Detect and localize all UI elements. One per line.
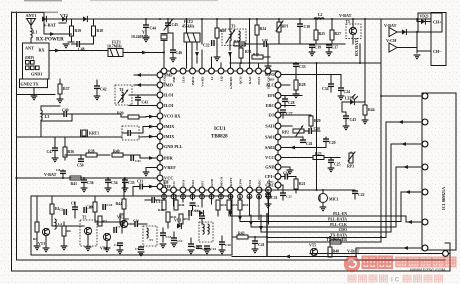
svg-text:T3: T3	[231, 25, 236, 29]
capacitor C50	[77, 155, 84, 168]
IC U1 name	[211, 127, 228, 140]
svg-text:ILOI: ILOI	[164, 93, 174, 98]
resistor R5	[179, 214, 188, 224]
svg-text:R28: R28	[299, 83, 306, 87]
pin EO (right)	[268, 112, 280, 118]
svg-text:CH−: CH−	[433, 49, 442, 54]
capacitor C8 rail	[56, 168, 66, 178]
wire VT2 collector drop	[71, 19, 73, 26]
svg-text:V-BAT: V-BAT	[339, 13, 352, 18]
capacitor C18	[281, 172, 296, 180]
LED LED1	[342, 95, 365, 105]
pin IC1-4	[422, 164, 428, 170]
pin RAO (top)	[247, 68, 253, 84]
pin PDR (left)	[157, 155, 173, 161]
capacitor C29b	[323, 137, 336, 147]
svg-text:I C: I C	[391, 277, 400, 284]
svg-text:R15: R15	[232, 203, 238, 207]
svg-text:RP2: RP2	[282, 131, 289, 135]
svg-text:V CC: V CC	[265, 155, 274, 160]
svg-text:C29: C29	[329, 141, 336, 145]
svg-text:RX DATA: RX DATA	[354, 38, 359, 56]
svg-text:VT5: VT5	[309, 244, 316, 248]
svg-text:R27: R27	[335, 32, 342, 36]
pin VCO RX (left)	[157, 113, 180, 119]
transformer T2 dashed with VT3	[80, 216, 97, 247]
pin DECCO (top)	[265, 68, 271, 89]
resistor R15	[227, 200, 238, 216]
dashed box J1	[122, 126, 139, 140]
svg-text:L4: L4	[58, 222, 62, 226]
transformer T1b dashed	[199, 222, 213, 242]
svg-text:C16: C16	[133, 219, 139, 223]
wire V-CH to CH-	[397, 48, 417, 54]
svg-text:LED1: LED1	[345, 97, 355, 101]
svg-text:TIF: TIF	[163, 181, 170, 185]
bus wire PLL-CLK	[251, 223, 396, 227]
ground under duplexer	[31, 96, 38, 100]
wire mic row	[255, 189, 355, 191]
node rail dots	[145, 18, 418, 258]
svg-text:ILO: ILO	[181, 76, 185, 83]
svg-text:R14: R14	[243, 203, 249, 207]
wires top pins verticals	[192, 19, 259, 68]
scan smudge top 2	[90, 0, 218, 1]
capacitor C24	[338, 75, 351, 100]
svg-text:T5: T5	[346, 20, 351, 24]
svg-text:C31: C31	[271, 196, 278, 200]
pin IC1-3	[422, 141, 428, 147]
border frame inner bottom	[17, 259, 446, 261]
svg-text:EFI: EFI	[268, 93, 275, 98]
capacitor C31	[265, 190, 278, 208]
capacitor C4	[114, 243, 123, 250]
capacitor C20	[219, 236, 232, 254]
bus wire TX-DATA	[267, 233, 386, 237]
capacitor C12	[171, 232, 183, 243]
svg-text:LPW: LPW	[238, 178, 242, 186]
wire L3 top	[41, 106, 60, 110]
resistor R39	[117, 112, 146, 120]
svg-text:SA02: SA02	[265, 145, 275, 150]
transistor VT2	[117, 216, 128, 228]
resistor R6	[62, 222, 71, 246]
wire IC1 row6	[406, 216, 422, 224]
svg-text:PDR: PDR	[164, 156, 174, 161]
wire V-BAT out right	[310, 253, 450, 255]
inductor L4	[55, 219, 62, 229]
transistor VT4	[100, 233, 111, 250]
wire SA02 row	[281, 146, 326, 150]
svg-text:R48: R48	[333, 250, 340, 254]
wire EFI row	[281, 95, 302, 97]
pin SAI1 (right)	[265, 123, 280, 129]
wires pins to bus with arrows	[229, 210, 263, 232]
svg-text:R30: R30	[220, 29, 227, 33]
svg-text:VD1: VD1	[174, 219, 181, 223]
capacitor C33	[293, 63, 306, 75]
capacitor C41c	[252, 237, 265, 253]
resistor R32	[234, 39, 245, 46]
resistor R33	[252, 44, 270, 59]
filter FLT2 455kHz	[182, 19, 200, 42]
svg-text:C7: C7	[116, 225, 120, 229]
wire IMIX1 lead	[139, 125, 157, 133]
capacitor C43b	[343, 112, 357, 130]
connector CH box	[431, 13, 446, 66]
pin LQ (top)	[218, 68, 224, 81]
diode to CH	[397, 29, 417, 34]
svg-text:GND1: GND1	[31, 72, 42, 77]
svg-text:DECO: DECO	[219, 176, 223, 186]
capacitor C13	[189, 209, 198, 217]
wire KRT1 row	[17, 136, 123, 138]
pin GND (bottom)	[209, 178, 215, 199]
transformer T1 dashed	[143, 226, 157, 246]
svg-text:RATT: RATT	[229, 177, 233, 187]
wire VCC row	[281, 157, 313, 159]
capacitor C41b	[300, 137, 313, 146]
pin IMIX (left)	[157, 124, 174, 130]
capacitor C16	[133, 219, 139, 228]
potentiometer RP3	[347, 152, 355, 169]
grounds audio row	[43, 214, 124, 254]
resistor R9	[120, 214, 129, 233]
svg-text:SMI: SMI	[164, 73, 172, 78]
resistor R24	[255, 19, 266, 44]
antenna ANT1 symbol	[27, 19, 36, 29]
capacitor C44	[143, 19, 157, 42]
svg-text:C12: C12	[177, 239, 183, 243]
wire top supply rail	[44, 18, 431, 20]
resistor R42	[166, 212, 177, 228]
svg-text:C34: C34	[322, 87, 329, 91]
svg-text:C9: C9	[135, 247, 139, 251]
pin V&#8202;CC (right)	[265, 155, 281, 161]
svg-text:(DIP): (DIP)	[25, 56, 35, 60]
wire C16 to T1	[137, 223, 147, 225]
node CH junction	[416, 31, 418, 33]
svg-text:C30: C30	[202, 247, 208, 251]
capacitor C37	[326, 44, 339, 56]
svg-text:ICU1: ICU1	[214, 127, 226, 132]
svg-text:VD21: VD21	[420, 15, 429, 19]
pin SMI (left)	[157, 72, 172, 78]
svg-text:10.240MHz: 10.240MHz	[131, 35, 150, 39]
svg-text:C5: C5	[59, 208, 63, 212]
capacitor C10	[103, 203, 113, 210]
svg-text:PLL-DATA: PLL-DATA	[328, 217, 347, 221]
wire V-BAT rail left	[17, 177, 161, 179]
resistor R48	[328, 246, 339, 257]
duplexer (SAW filter) box	[23, 43, 50, 79]
svg-text:C4: C4	[114, 243, 118, 247]
resistor R31	[239, 47, 252, 63]
wire ALC row	[281, 84, 290, 86]
inductor L2	[314, 13, 324, 19]
svg-text:C36: C36	[87, 181, 94, 185]
svg-text:V-BAT: V-BAT	[44, 172, 57, 177]
svg-text:C49: C49	[62, 109, 69, 113]
pin ALC (right)	[266, 82, 281, 88]
pin CO (bottom)	[171, 181, 177, 199]
svg-text:R46: R46	[179, 203, 185, 207]
capacitor C28	[282, 96, 295, 108]
svg-text:L3: L3	[45, 114, 50, 119]
wire VCC lead to rail	[120, 177, 157, 179]
node rail-frame junction	[15, 177, 17, 179]
svg-text:SAI1: SAI1	[265, 124, 274, 129]
pin TIF (left)	[157, 184, 171, 190]
svg-text:R16: R16	[221, 203, 227, 207]
svg-text:CO: CO	[172, 181, 176, 186]
trimmer C45	[164, 18, 178, 33]
border frame inner left	[16, 12, 18, 260]
svg-text:R29: R29	[314, 119, 321, 123]
resistor R45	[158, 199, 166, 212]
svg-text:ANT: ANT	[25, 46, 34, 51]
wire duplexer GND1 to ground	[33, 88, 35, 96]
wire TX power drop	[329, 236, 331, 247]
svg-text:V-BAT: V-BAT	[44, 23, 57, 28]
svg-text:ERC: ERC	[266, 103, 275, 108]
svg-text:QCO: QCO	[238, 76, 242, 84]
svg-text:FSO: FSO	[248, 180, 252, 187]
resistor R44	[116, 178, 127, 218]
capacitor C5	[59, 208, 66, 216]
svg-text:VCO RX: VCO RX	[164, 114, 180, 119]
wire C11 down	[132, 187, 134, 197]
resistor R4	[89, 196, 97, 222]
svg-text:R4: R4	[89, 205, 93, 209]
border frame top-left segment	[12, 13, 45, 20]
pin DSCI (top)	[256, 68, 262, 85]
wire ERC row	[281, 105, 295, 107]
svg-text:C11: C11	[137, 180, 143, 184]
svg-text:R19: R19	[75, 29, 82, 33]
pin GND (right)	[265, 164, 281, 170]
svg-text:SFI: SFI	[200, 181, 204, 187]
svg-text:C25: C25	[334, 163, 341, 167]
capacitor C15	[160, 228, 172, 242]
wire FLT2 leads down	[187, 42, 198, 68]
wire junction to CH- row	[416, 32, 418, 48]
capacitor C6	[71, 202, 78, 215]
wire RX-POWER branch	[44, 19, 72, 34]
svg-text:R5: R5	[184, 217, 188, 221]
capacitor C30	[309, 127, 320, 134]
svg-text:C44: C44	[150, 27, 157, 31]
resistor R41	[70, 176, 81, 186]
microphone MIC1	[319, 190, 339, 211]
svg-text:R25: R25	[319, 32, 326, 36]
watermark slogan row	[348, 275, 443, 284]
wire Y1 to IC	[163, 41, 165, 52]
pin RATT (bottom)	[228, 177, 234, 199]
capacitor C3	[199, 216, 205, 224]
svg-text:C32: C32	[203, 44, 210, 48]
svg-text:VT1: VT1	[38, 242, 45, 246]
svg-text:CDO: CDO	[339, 228, 347, 232]
svg-text:T4: T4	[119, 88, 124, 92]
arrow into IMI	[142, 51, 147, 55]
svg-text:C43: C43	[142, 101, 149, 105]
wire audio out row	[128, 223, 135, 225]
resistor R14	[238, 198, 249, 216]
pin CPI+ (right)	[265, 174, 281, 180]
border frame outer left	[11, 12, 13, 271]
pin QCO (top)	[237, 68, 243, 84]
wire VCO RX lead	[146, 116, 157, 118]
wire VT5 to IC1 row	[356, 246, 421, 256]
svg-text:EO: EO	[268, 113, 275, 118]
svg-text:RIF: RIF	[269, 78, 275, 82]
svg-text:C50: C50	[77, 164, 84, 168]
wire EO row	[281, 114, 311, 116]
node rail junctions	[62, 177, 126, 179]
bus wire CDO	[261, 228, 391, 232]
wire C45 branch	[168, 33, 173, 50]
pin ILOI (left)	[157, 103, 174, 109]
wire R24 row	[240, 43, 257, 45]
capacitor C9	[135, 246, 144, 256]
bus wire PLL-EN	[231, 212, 406, 216]
wire IMO out	[134, 83, 157, 87]
svg-text:V-BAT: V-BAT	[347, 249, 360, 254]
diode VD1	[174, 219, 181, 229]
capacitor C14	[204, 246, 216, 251]
svg-text:455kHz: 455kHz	[182, 25, 195, 29]
pin V&#8202;CC (left)	[157, 175, 173, 181]
svg-text:C24: C24	[344, 90, 351, 94]
border frame right segment	[449, 243, 451, 271]
resistor R19	[70, 26, 82, 36]
wire CH- lead	[417, 50, 431, 52]
resistor R8	[33, 196, 40, 250]
pin CRC (right)	[265, 182, 280, 188]
pin IC1-6	[422, 219, 428, 225]
svg-text:C20: C20	[225, 243, 231, 247]
pin GNDRX (top)	[228, 68, 234, 89]
svg-text:IMIX: IMIX	[164, 124, 174, 129]
wire mid rail y63	[230, 62, 381, 64]
svg-text:C21: C21	[286, 195, 292, 199]
svg-text:Y1: Y1	[142, 31, 147, 35]
pin V-BAT exit	[443, 251, 449, 257]
svg-text:R31: R31	[245, 50, 252, 54]
capacitor C47	[47, 137, 59, 162]
resistor R16	[216, 200, 227, 216]
svg-text:C33: C33	[299, 65, 306, 69]
svg-text:C35: C35	[128, 181, 135, 185]
buffer V-BAT top right	[384, 23, 397, 37]
svg-text:R33: R33	[253, 52, 259, 56]
wire C49 down	[41, 114, 72, 121]
svg-text:C15: C15	[166, 235, 172, 239]
transistor VT2 symbol	[59, 16, 66, 23]
diode top-left 2	[83, 16, 87, 21]
pin ILO (top)	[180, 68, 186, 83]
svg-text:R49: R49	[331, 238, 337, 242]
svg-text:DSCI: DSCI	[257, 76, 261, 85]
wire L1 to duplexer box	[30, 38, 32, 43]
wire SA01 row	[281, 136, 303, 138]
capacitor C40	[257, 38, 279, 47]
diode VD21 box	[418, 13, 442, 32]
potentiometer RP2	[282, 125, 308, 136]
svg-text:GNDRX: GNDRX	[229, 76, 233, 89]
svg-text:FLT2: FLT2	[184, 20, 193, 24]
svg-text:MPO: MPO	[265, 72, 276, 77]
wire ILOI upper	[129, 94, 157, 96]
svg-text:R32: R32	[234, 39, 240, 43]
arrow into VCO RX	[149, 115, 154, 119]
arrow RX-POWER	[50, 32, 55, 36]
wire CRC row	[281, 185, 283, 193]
audio section box	[31, 196, 232, 255]
wire rail to VD21	[417, 19, 421, 22]
arrow T3 down	[228, 52, 232, 57]
svg-text:C47: C47	[47, 150, 54, 154]
wire SMI out	[134, 73, 157, 77]
svg-text:C40: C40	[262, 38, 268, 42]
wire C40 drop	[265, 44, 272, 70]
wire T3 leads	[230, 19, 239, 50]
wire IC1 row1	[381, 19, 422, 242]
svg-text:C43: C43	[350, 118, 357, 122]
watermark big characters 维库	[363, 256, 393, 268]
resistor R25	[314, 19, 325, 44]
svg-text:R37: R37	[63, 87, 70, 91]
RX DATA vertical wire	[359, 44, 361, 63]
ground CH	[414, 55, 421, 59]
svg-text:L2: L2	[318, 13, 323, 17]
pin SA02 (right)	[265, 145, 281, 151]
bus wire PLL-DATA	[241, 217, 401, 221]
transformer T4 dashed	[115, 85, 132, 105]
svg-text:CPI+: CPI+	[265, 174, 275, 179]
svg-text:SFO: SFO	[181, 180, 185, 187]
node crystal junction	[163, 52, 165, 54]
svg-text:C18: C18	[283, 172, 290, 176]
svg-text:CH+: CH+	[433, 20, 442, 25]
resistor R46	[174, 195, 185, 210]
svg-text:GND2 TX: GND2 TX	[21, 82, 39, 87]
svg-text:ILOI: ILOI	[164, 103, 174, 108]
wires bottom pin stubs	[164, 193, 269, 224]
resistor R38	[65, 150, 110, 158]
wire R19 to RX-POWER node	[71, 36, 73, 42]
svg-text:IC1 86M21A: IC1 86M21A	[441, 187, 446, 210]
wire IC1 row3	[391, 142, 422, 232]
svg-text:C51: C51	[135, 159, 141, 163]
IC U1 TB8828 body	[160, 71, 278, 190]
pin ILOI (left)	[157, 92, 174, 98]
pin ERC (right)	[266, 103, 281, 109]
pin MPO (right)	[265, 72, 281, 78]
scan smudge top 1	[24, 0, 62, 1]
wire GND row	[281, 167, 293, 174]
grounds audio right	[160, 216, 211, 254]
svg-text:C39: C39	[315, 46, 322, 50]
crystal Y1	[131, 31, 167, 41]
capacitor C26	[188, 238, 200, 254]
resistor R23	[313, 152, 340, 160]
capacitor C22	[352, 190, 365, 199]
svg-text:KRT1: KRT1	[89, 132, 99, 136]
resistor R36	[63, 137, 74, 160]
wire L3 bottom to KRT1 row	[40, 121, 42, 138]
